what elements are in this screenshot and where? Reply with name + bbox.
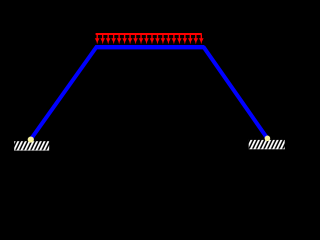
load arrow 17	[183, 35, 188, 45]
load arrow 4	[111, 35, 116, 45]
load arrow 8	[133, 35, 138, 45]
load arrow 12	[155, 35, 160, 45]
load arrow 14	[166, 35, 171, 45]
load arrow 10	[144, 35, 149, 45]
load arrow 1	[95, 35, 100, 45]
load arrow 15	[172, 35, 177, 45]
distributed load line	[96, 33, 202, 35]
right support hatched block	[249, 140, 285, 149]
load arrow 19	[193, 35, 198, 45]
right pin	[265, 136, 271, 142]
load arrow 3	[106, 35, 111, 45]
load arrow 18	[188, 35, 193, 45]
load arrow 16	[177, 35, 182, 45]
left support hatched block	[14, 141, 49, 150]
right inclined member	[203, 47, 267, 139]
load arrow 13	[161, 35, 166, 45]
load arrow 6	[122, 35, 127, 45]
left pin	[28, 137, 34, 143]
left inclined member	[31, 47, 97, 140]
load arrow 9	[139, 35, 144, 45]
load arrow 7	[128, 35, 133, 45]
load arrow 11	[150, 35, 155, 45]
load arrow 5	[117, 35, 122, 45]
load arrow 20	[199, 35, 204, 45]
load arrow 2	[100, 35, 105, 45]
top beam member	[95, 45, 204, 49]
